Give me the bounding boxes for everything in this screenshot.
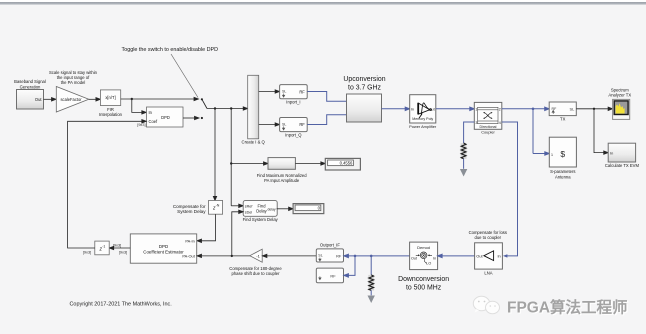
- wire: Coupler port4 -> down to LNA (blue): [502, 122, 518, 256]
- svg-text:scaleFactor: scaleFactor: [61, 97, 83, 102]
- wire: Coupler port3 -> resistor (blue): [464, 122, 475, 143]
- svg-text:-1: -1: [102, 244, 105, 248]
- svg-text:Copyright 2017-2021 The MathWo: Copyright 2017-2021 The MathWorks, Inc.: [70, 302, 173, 308]
- wire: Create I&Q -> Inport_Q: [259, 123, 280, 126]
- ground near coupler: [460, 169, 467, 177]
- svg-text:sRef: sRef: [245, 204, 254, 208]
- svg-text:PA-Out: PA-Out: [182, 254, 195, 259]
- svg-text:RF: RF: [552, 107, 558, 111]
- svg-text:to 500 MHz: to 500 MHz: [406, 285, 442, 292]
- svg-text:4: 4: [499, 121, 501, 125]
- top window bar: [0, 0, 646, 2]
- svg-text:S-parameters: S-parameters: [550, 169, 575, 174]
- svg-text:3: 3: [475, 121, 477, 125]
- gain: -1 (Compensate for 180-degree phase shift): [229, 249, 282, 276]
- wire: Inport_I -> Upconversion (blue): [307, 92, 346, 102]
- svg-text:Inport_I: Inport_I: [286, 99, 300, 104]
- svg-text:FPGA算法工程师: FPGA算法工程师: [507, 298, 628, 317]
- wire: DPD out -> switch lower contact: [183, 116, 203, 119]
- display: delay value: [293, 204, 324, 214]
- block: Baseband Signal Generation: [14, 79, 46, 109]
- svg-text:Analyzer TX: Analyzer TX: [608, 93, 631, 98]
- wire: Outport_IF -> gain -1 (black): [262, 254, 316, 257]
- wire: Create I&Q -> Inport_I: [259, 90, 280, 93]
- svg-text:Out: Out: [35, 97, 42, 102]
- svg-text:SL: SL: [282, 90, 286, 94]
- block: Outport_IF: [316, 243, 343, 262]
- wire: FindMax -> Display 0.4556: [295, 162, 325, 165]
- wire: Find Delay -> Display2: [277, 207, 294, 210]
- block: LNA (Compensate for loss due to coupler): [469, 230, 507, 275]
- svg-text:0.4556: 0.4556: [340, 161, 353, 166]
- svg-text:delay: delay: [267, 207, 275, 211]
- block: Inport_I: [280, 85, 308, 105]
- svg-text:due to coupler: due to coupler: [475, 235, 502, 240]
- svg-text:Downconversion: Downconversion: [398, 276, 449, 283]
- wire: PA -> Coupler port1 (blue): [436, 107, 475, 110]
- svg-text:Coupler: Coupler: [481, 129, 495, 134]
- svg-text:sDel: sDel: [245, 211, 253, 215]
- svg-text:[9x3]: [9x3]: [137, 123, 145, 127]
- wire: junction -> z^-N (down): [213, 109, 216, 201]
- svg-text:Interpolation: Interpolation: [99, 112, 123, 117]
- display: 0.4556: [325, 158, 360, 170]
- watermark: WeChat logo: [473, 296, 499, 313]
- block: TX: [549, 102, 576, 122]
- ground near Outport: [368, 296, 375, 304]
- wire: Upconversion -> PA (blue): [382, 107, 410, 110]
- svg-text:2: 2: [499, 108, 501, 112]
- annotation: Toggle the switch to enable/disable DPD: [122, 47, 219, 98]
- svg-text:Coefficient Estimator: Coefficient Estimator: [143, 249, 184, 254]
- block: DPD: [137, 107, 183, 127]
- block: z^-N delay: [209, 201, 223, 215]
- svg-text:DPD: DPD: [161, 115, 170, 120]
- svg-text:Memory Poly: Memory Poly: [412, 117, 433, 121]
- wire: LNA -> Demod (blue): [438, 254, 475, 257]
- wire: z^-N out -> PA-In: [197, 214, 216, 242]
- block: z^-1 delay: [95, 241, 109, 255]
- block: Find Delay: [243, 201, 279, 222]
- svg-text:Outport_IF: Outport_IF: [320, 243, 340, 248]
- gain: scaleFactor: [56, 87, 89, 113]
- wire: switch out -> Create I & Q: [207, 107, 248, 110]
- block: RF sink: [316, 268, 343, 283]
- svg-text:Toggle the switch to enable/di: Toggle the switch to enable/disable DPD: [122, 47, 219, 53]
- svg-text:Out: Out: [411, 257, 417, 261]
- block: Inport_Q: [280, 118, 308, 138]
- svg-text:x[n/T]: x[n/T]: [105, 95, 115, 100]
- wire: DPD CE coef out -> z^-1: [109, 244, 130, 255]
- svg-text:In: In: [411, 107, 414, 112]
- block: Directional Coupler: [474, 102, 502, 134]
- wire: TX -> Spectrum Analyzer (black, junction to EVM): [576, 107, 612, 154]
- switch lever: [201, 98, 207, 108]
- svg-text:RF: RF: [299, 122, 305, 127]
- svg-text:RF: RF: [299, 89, 305, 94]
- svg-text:1: 1: [475, 108, 477, 112]
- annotation: Scale signal to stay within the input range of the PA model: [49, 70, 98, 85]
- wire: Baseband Out -> scaleFactor: [44, 98, 57, 101]
- block: Memory Poly Power Amplifier: [409, 95, 437, 129]
- svg-text:SL: SL: [318, 254, 322, 258]
- wire: scaleFactor -> FIR: [89, 98, 101, 101]
- svg-text:Demod: Demod: [417, 245, 430, 250]
- svg-text:[9x3]: [9x3]: [113, 244, 121, 248]
- svg-text:In: In: [610, 150, 613, 155]
- wire: z^-1 -> up -> DPD Coef: [68, 120, 147, 255]
- svg-text:PA-In: PA-In: [185, 239, 194, 244]
- block: Demod (Downconversion): [398, 242, 449, 292]
- svg-text:Directional: Directional: [480, 125, 497, 129]
- svg-text:Out: Out: [428, 107, 435, 112]
- watermark: FPGA text: [507, 298, 629, 318]
- svg-text:[9x3]: [9x3]: [83, 251, 91, 255]
- svg-text:Upconversion: Upconversion: [343, 76, 385, 83]
- svg-text:In: In: [433, 257, 436, 261]
- block: DPD Coefficient Estimator: [130, 234, 196, 263]
- svg-text:Calculate TX EVM: Calculate TX EVM: [605, 163, 640, 168]
- block: Find Maximum Normalized PA Input Amplitude: [257, 158, 307, 183]
- svg-text:SL: SL: [570, 106, 576, 111]
- svg-text:DPD: DPD: [159, 244, 168, 249]
- svg-text:PA Input Amplitude: PA Input Amplitude: [264, 178, 300, 183]
- svg-text:RF: RF: [336, 254, 342, 259]
- svg-text:phase shift due to coupler: phase shift due to coupler: [232, 271, 281, 276]
- wire: Coupler port2 -> TX (blue, junction to antenna): [502, 107, 550, 155]
- svg-text:RF: RF: [330, 274, 336, 279]
- svg-text:Out: Out: [476, 254, 483, 259]
- svg-text:Delay: Delay: [256, 209, 267, 214]
- block: FIR Interpolation: [99, 90, 123, 117]
- svg-text:LO: LO: [426, 262, 431, 266]
- svg-text:Baseband Signal: Baseband Signal: [14, 79, 46, 84]
- svg-text:Create I & Q: Create I & Q: [242, 140, 266, 145]
- resistor: termination near coupler: [461, 143, 467, 169]
- scope: Spectrum Analyzer TX: [608, 88, 631, 120]
- svg-text:the PA model: the PA model: [61, 80, 86, 85]
- block: Calculate TX EVM: [605, 143, 640, 168]
- svg-text:In: In: [497, 254, 500, 259]
- svg-text:System Delay: System Delay: [177, 209, 206, 214]
- wire: gain -1 -> PA-Out (black, junction to sDel): [197, 210, 250, 258]
- block: Upconversion to 3.7 GHz: [343, 76, 385, 122]
- svg-text:SL: SL: [282, 122, 286, 126]
- svg-text:-N: -N: [216, 204, 220, 208]
- svg-text:TX: TX: [560, 117, 566, 122]
- svg-text:Find System Delay: Find System Delay: [243, 217, 279, 222]
- svg-text:[9x3]: [9x3]: [119, 251, 127, 255]
- svg-text:Generation: Generation: [20, 85, 41, 90]
- svg-text:Inport_Q: Inport_Q: [285, 132, 302, 137]
- svg-text:$: $: [560, 149, 565, 159]
- annotation: Compensate for System Delay: [173, 204, 206, 214]
- svg-text:LNA: LNA: [484, 270, 492, 275]
- svg-text:1: 1: [551, 153, 553, 157]
- svg-text:to 3.7 GHz: to 3.7 GHz: [348, 85, 381, 92]
- resistor: termination near Outport (blue drop): [368, 256, 374, 295]
- block: S-parameters Antenna: [549, 137, 576, 179]
- wire: junction -> FindMax and sRef (down): [230, 109, 268, 208]
- wire: Inport_Q -> Upconversion (blue): [307, 115, 346, 125]
- wire: FIR -> switch (with junction to DPD In): [121, 97, 199, 114]
- svg-text:Antenna: Antenna: [555, 174, 571, 179]
- block: Create I & Q: [242, 75, 266, 144]
- svg-text:Power Amplifier: Power Amplifier: [409, 124, 437, 129]
- wire: Demod -> Outport_IF (blue, junctions): [344, 254, 410, 277]
- svg-text:Coef: Coef: [149, 119, 159, 124]
